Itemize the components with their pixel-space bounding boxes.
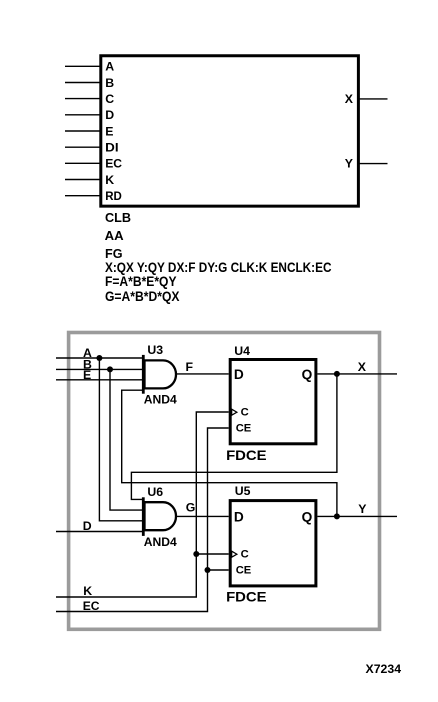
node EC junction at U5 CE (205, 567, 211, 573)
svg-text:C: C (241, 548, 249, 560)
pin wire Y output (359, 163, 388, 165)
svg-text:U6: U6 (147, 485, 163, 499)
pin wire X output (359, 98, 388, 100)
node B junction (107, 366, 113, 372)
svg-text:C: C (241, 406, 249, 418)
pin wire EC (65, 162, 100, 164)
svg-text:Q: Q (302, 509, 313, 524)
svg-text:E: E (83, 368, 91, 382)
svg-text:U4: U4 (234, 344, 250, 358)
pin wire E (65, 130, 100, 132)
wire A input (56, 357, 143, 359)
wire G (176, 515, 229, 517)
svg-text:F=A*B*E*QY: F=A*B*E*QY (105, 273, 177, 289)
pin wire C (65, 98, 100, 100)
svg-text:B: B (105, 76, 114, 90)
clock triangle U4 (232, 409, 237, 415)
svg-text:Q: Q (302, 367, 313, 382)
wire K to U5 C (196, 553, 228, 555)
gray frame (69, 333, 380, 630)
pin wire A (65, 65, 100, 67)
wire B input (56, 368, 143, 370)
pin wire DI (65, 146, 100, 148)
svg-text:G: G (186, 501, 196, 515)
svg-text:CE: CE (236, 564, 252, 576)
svg-text:Y: Y (345, 157, 353, 171)
wire X output (317, 373, 397, 375)
svg-text:CLB: CLB (105, 210, 131, 225)
svg-text:D: D (234, 509, 244, 524)
svg-text:FDCE: FDCE (226, 448, 267, 463)
svg-text:X: X (358, 360, 367, 374)
flip-flop U4 (230, 360, 316, 444)
svg-text:G=A*B*D*QX: G=A*B*D*QX (105, 288, 180, 304)
svg-text:FDCE: FDCE (226, 590, 267, 605)
node Y junction (334, 513, 340, 519)
wire K (56, 412, 229, 597)
svg-text:D: D (105, 108, 114, 122)
wire B vertical to U6 (110, 369, 143, 510)
svg-text:X: X (345, 92, 354, 106)
svg-text:U3: U3 (147, 343, 163, 357)
svg-text:EC: EC (83, 599, 100, 613)
svg-text:X7234: X7234 (366, 662, 402, 676)
wire F (176, 373, 229, 375)
svg-text:Y: Y (358, 502, 366, 516)
svg-text:DI: DI (105, 141, 118, 155)
flip-flop U5 (230, 501, 316, 586)
pin wire RD (65, 195, 100, 197)
svg-text:K: K (105, 173, 114, 187)
clock triangle U5 (232, 551, 237, 557)
wire Y output (317, 515, 397, 517)
pin wire K (65, 179, 100, 181)
node X junction (334, 371, 340, 377)
CLB block symbol box (101, 56, 359, 206)
svg-text:E: E (105, 124, 113, 138)
svg-text:AND4: AND4 (144, 535, 177, 549)
pin wire D (65, 114, 100, 116)
wire QY feedback to U3 (122, 390, 337, 516)
pin wire B (65, 82, 100, 84)
svg-text:A: A (105, 60, 114, 74)
wire D input (56, 531, 143, 533)
svg-text:U5: U5 (235, 484, 251, 498)
svg-text:D: D (83, 519, 92, 533)
and-gate U6 (143, 497, 176, 536)
node K junction at U5 C (193, 551, 199, 557)
svg-text:D: D (234, 367, 244, 382)
svg-text:RD: RD (105, 189, 122, 203)
wire EC to U5 CE (208, 569, 229, 571)
svg-text:CE: CE (236, 422, 252, 434)
and-gate U3 (143, 355, 176, 394)
wire EC (56, 428, 229, 612)
svg-text:AA: AA (105, 228, 124, 243)
svg-text:K: K (83, 584, 92, 598)
svg-text:EC: EC (105, 157, 122, 171)
svg-text:F: F (186, 360, 194, 374)
wire A vertical to U6 (99, 358, 143, 521)
svg-text:C: C (105, 92, 114, 106)
node A junction (96, 355, 102, 361)
wire QX feedback to U6 (131, 374, 337, 500)
wire E input (56, 379, 143, 381)
svg-text:AND4: AND4 (144, 393, 177, 407)
